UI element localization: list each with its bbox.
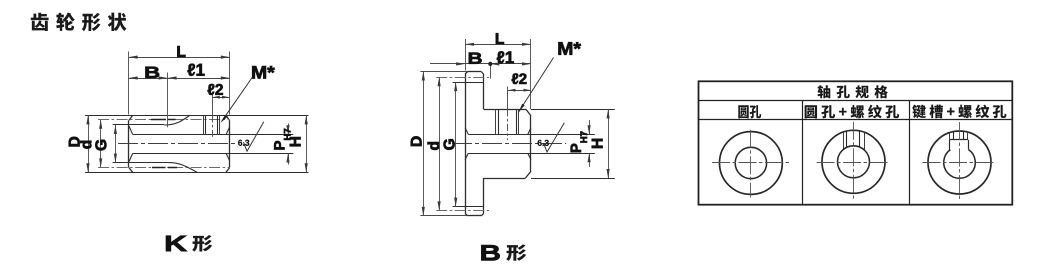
column header 圆孔+螺纹孔 — [805, 105, 900, 119]
keyway+tap tap hole lines — [950, 132, 968, 140]
column header 键槽+螺纹孔 — [912, 104, 1006, 118]
label K 形 — [166, 235, 212, 252]
table frame — [699, 81, 1013, 204]
K tap hole centerline — [212, 92, 214, 140]
round hole outer circle — [720, 132, 783, 195]
K dimension l2 — [208, 84, 230, 99]
B disc pitch centerlines — [436, 78, 489, 211]
K tap hole M — [204, 115, 220, 134]
B gear disc outline — [465, 72, 484, 216]
round+tap tap hole lines — [844, 131, 865, 150]
B dimension B (outside arrows) — [430, 53, 531, 79]
B dimension G — [444, 82, 458, 207]
B dimension l2 — [507, 73, 531, 91]
K tap callout M* — [220, 66, 274, 123]
B tap hole M — [496, 109, 519, 134]
round hole bore circle — [735, 147, 766, 178]
K bore lines with chamfers — [129, 126, 293, 162]
round hole crosshair — [712, 130, 790, 198]
K dimension B — [129, 67, 168, 127]
title 齿轮形状 — [31, 13, 127, 32]
K dimension P H7 — [274, 124, 290, 165]
table header 轴孔规格 — [817, 85, 887, 98]
round+tap outer circle — [822, 130, 885, 193]
B dimension D — [411, 72, 468, 216]
B dimension H — [592, 109, 610, 178]
B bore axis centerline — [452, 143, 566, 145]
K surface finish 6.3 — [238, 122, 264, 151]
B surface finish 6.3 — [538, 123, 565, 152]
column header 圆孔 — [738, 105, 761, 118]
keyway+tap outer circle — [928, 131, 991, 194]
B hub extension lines for H — [531, 110, 615, 179]
K gear outline — [85, 115, 308, 172]
B dimension P H7 — [571, 120, 591, 167]
B tap hole centerline — [507, 87, 509, 141]
round+tap crosshair — [817, 122, 890, 201]
K dimension D — [69, 115, 90, 172]
K dimension L — [129, 46, 230, 114]
keyway+tap crosshair — [923, 122, 997, 201]
B disc root lines — [453, 83, 484, 207]
B dimension l1 — [497, 51, 531, 65]
K dimension d — [80, 120, 102, 168]
B hub outline — [484, 109, 531, 178]
round+tap bore circle — [838, 146, 870, 178]
K dimension G — [95, 125, 117, 163]
K bore axis centerline — [118, 143, 236, 145]
K pitch centerlines — [98, 120, 230, 168]
B dimension L — [465, 33, 531, 109]
B bore lines with chamfers — [465, 128, 595, 160]
K root lines with tooth flank curves — [113, 115, 197, 172]
B dimension d — [428, 77, 441, 210]
label B 形 — [481, 244, 526, 261]
K dimension l1 — [168, 64, 230, 80]
B tap callout M* — [518, 42, 581, 112]
K dimension H — [290, 115, 308, 172]
keyway+tap bore circle with keyway notch — [944, 140, 976, 179]
